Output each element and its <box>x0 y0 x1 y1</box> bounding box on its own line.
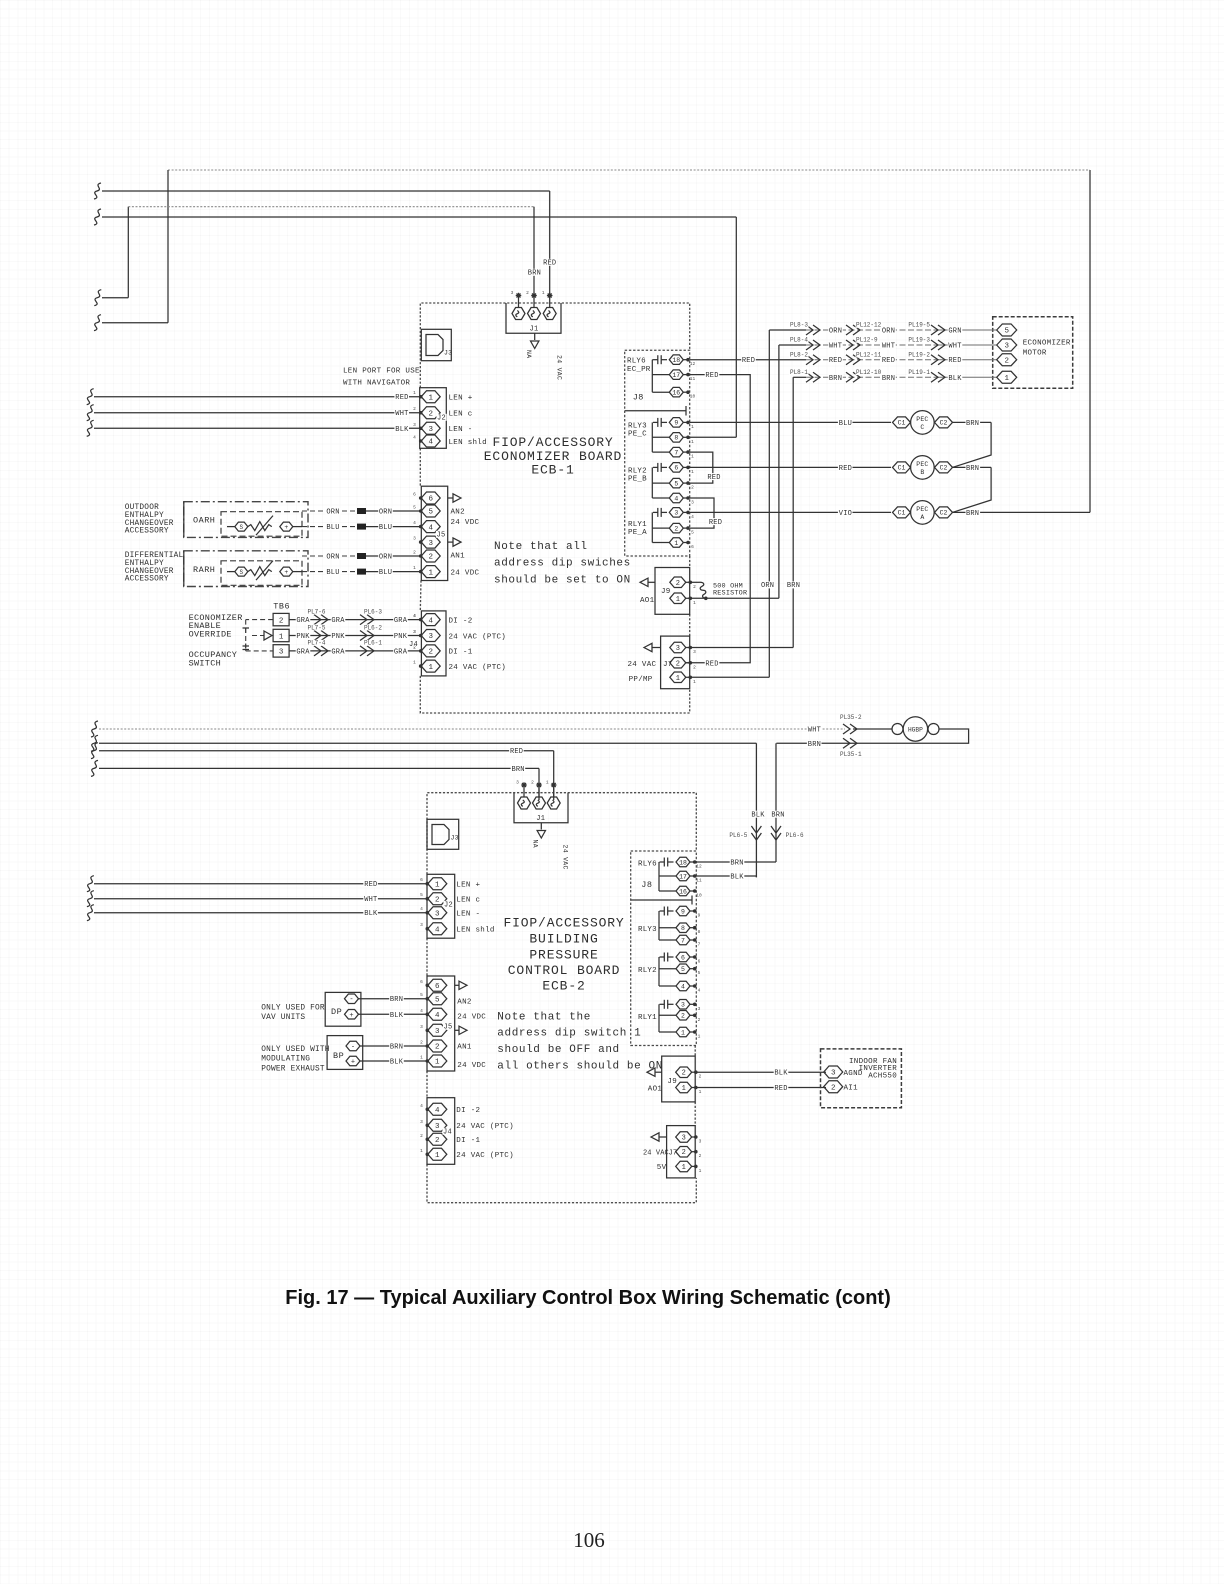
svg-text:LEN +: LEN + <box>449 395 473 403</box>
pin 3 J7 ECB-2 <box>676 1132 692 1142</box>
svg-text:1: 1 <box>676 675 680 683</box>
connector J1 (ECB-1) <box>506 303 561 333</box>
pin 3 J1 ECB-1 <box>512 308 525 320</box>
svg-text:BRN: BRN <box>808 741 821 749</box>
wire VIO J8-3 to PEC A <box>690 511 891 513</box>
svg-text:RED: RED <box>839 465 852 473</box>
svg-text:HGBP: HGBP <box>908 726 923 733</box>
svg-text:18: 18 <box>672 357 680 364</box>
pin 18 J8 ECB-2 <box>676 857 690 867</box>
pin - BP <box>346 1041 360 1051</box>
svg-text:ECONOMIZER: ECONOMIZER <box>1023 340 1071 348</box>
svg-text:2: 2 <box>682 1070 686 1078</box>
pin 8 J8 ECB-1 <box>669 433 683 443</box>
svg-text:4: 4 <box>428 524 433 532</box>
svg-text:+: + <box>351 1059 355 1067</box>
svg-text:SWITCH: SWITCH <box>189 658 221 668</box>
svg-text:5: 5 <box>674 480 678 487</box>
svg-text:2: 2 <box>831 1084 836 1092</box>
pin 5 J8 ECB-2 <box>676 964 690 974</box>
svg-text:3: 3 <box>693 649 696 655</box>
svg-text:J3: J3 <box>451 835 459 842</box>
svg-text:4: 4 <box>413 520 416 526</box>
svg-text:CONTROL BOARD: CONTROL BOARD <box>508 963 620 978</box>
pin 1 J5 ECB-1 <box>421 566 440 578</box>
svg-text:AI1: AI1 <box>844 1085 859 1093</box>
wire PL8-3 drop to ORN riser <box>769 329 806 331</box>
svg-text:5: 5 <box>1004 328 1009 336</box>
pin + BP <box>346 1056 360 1066</box>
svg-text:6: 6 <box>691 544 694 550</box>
svg-text:3: 3 <box>831 1070 836 1078</box>
svg-text:2: 2 <box>676 580 680 588</box>
svg-text:FIOP/ACCESSORY: FIOP/ACCESSORY <box>492 435 613 450</box>
svg-text:should be OFF and: should be OFF and <box>497 1044 619 1056</box>
wire RED J8-17 to J7-2 ECB-1 <box>685 375 750 663</box>
plug C1 PEC B <box>893 462 911 473</box>
pin 1 J2 ECB-1 <box>421 391 440 403</box>
pin 9 J8 ECB-2 <box>676 906 690 916</box>
pin 2 J1 ECB-1 <box>528 308 541 320</box>
pin 2 J4 ECB-2 <box>428 1133 447 1145</box>
svg-text:3: 3 <box>428 426 433 434</box>
wire LEN BLK to J2-3 ECB-2 <box>87 905 94 921</box>
svg-text:2: 2 <box>420 1133 423 1139</box>
resistor 500 ohm on J9 <box>691 581 700 583</box>
wire field feed B (RED to ECB-1 J1 pin 1) <box>94 183 101 199</box>
svg-text:GRA: GRA <box>296 648 310 656</box>
arrow 24VAC J7 ECB-2 <box>659 1136 667 1138</box>
svg-text:FIOP/ACCESSORY: FIOP/ACCESSORY <box>503 916 624 931</box>
pin 3 economizer motor <box>997 339 1017 351</box>
wire J7-3 to BRN riser <box>691 647 793 649</box>
svg-text:3: 3 <box>676 645 680 653</box>
svg-text:S: S <box>239 569 243 576</box>
svg-text:PEC: PEC <box>916 461 928 468</box>
svg-text:RLY6: RLY6 <box>638 861 657 869</box>
svg-text:1: 1 <box>435 1152 440 1160</box>
svg-text:AO1: AO1 <box>648 1086 663 1094</box>
svg-text:BLK: BLK <box>364 910 378 918</box>
svg-text:2: 2 <box>279 617 284 625</box>
svg-text:BP: BP <box>333 1051 344 1061</box>
wire BLK DP to J5-4 ECB-2 <box>359 1013 428 1015</box>
board ECB-1 outline (FIOP/ACCESSORY ECONOMIZER BOARD) <box>420 303 689 388</box>
plug C1 PEC A <box>893 507 911 518</box>
relay block J8 (ECB-1) <box>625 350 690 556</box>
pin 2 J8 ECB-1 <box>669 523 683 533</box>
wire RED J8-18 to PL8-2 row <box>690 359 806 361</box>
svg-text:5: 5 <box>428 509 433 517</box>
relay RLY2 coil contact <box>653 466 658 468</box>
pin 17 J8 ECB-2 <box>676 871 690 881</box>
svg-text:6: 6 <box>698 959 701 965</box>
svg-text:BLK: BLK <box>390 1059 404 1067</box>
svg-text:RED: RED <box>510 748 523 756</box>
svg-text:2: 2 <box>681 1013 685 1020</box>
jumper J8-4 to J8-2 (RED) <box>690 498 714 528</box>
svg-text:24 VAC (PTC): 24 VAC (PTC) <box>449 664 507 672</box>
svg-text:6: 6 <box>681 954 685 961</box>
pin 1 J8 ECB-1 <box>669 538 683 547</box>
wire J9-1 to WHT riser <box>691 597 779 599</box>
svg-text:PL19-1: PL19-1 <box>908 369 930 376</box>
svg-text:C2: C2 <box>940 420 948 427</box>
arrow J5-3 ECB-1 <box>448 541 453 543</box>
svg-text:ORN: ORN <box>379 554 392 562</box>
connector J2 (ECB-2) <box>427 874 455 938</box>
relay RLY1 coil contact ECB-2 <box>660 1003 665 1005</box>
wire TB6-2 GRA to J4 ECB-1 <box>289 619 421 621</box>
svg-text:8: 8 <box>698 929 701 935</box>
svg-text:LEN -: LEN - <box>449 426 473 434</box>
svg-text:J7: J7 <box>669 1149 678 1157</box>
terminal TB6-2 <box>273 613 289 625</box>
pin 1 J8 ECB-2 <box>676 1027 690 1037</box>
svg-text:RLY3: RLY3 <box>628 423 647 431</box>
relay RLY3 coil contact <box>653 421 658 423</box>
wire BRN PEC C to PEC B <box>953 421 992 423</box>
svg-text:1: 1 <box>420 1055 423 1061</box>
svg-text:1: 1 <box>691 424 694 430</box>
pin 5 J5 ECB-1 <box>421 505 440 517</box>
arrow 24VAC J1 ECB-2 <box>540 823 542 830</box>
svg-text:C1: C1 <box>898 465 906 472</box>
svg-text:AGND: AGND <box>844 1070 863 1078</box>
svg-text:PL19-3: PL19-3 <box>908 337 930 344</box>
riser ORN PL8-3 to J7-1 ECB-1 <box>768 330 770 677</box>
arrow J5-3 ECB-2 <box>455 1029 459 1031</box>
wire RED to ECB-2 J1 pin 1 <box>91 743 98 759</box>
svg-text:DI -2: DI -2 <box>456 1107 480 1115</box>
svg-text:1: 1 <box>413 565 416 571</box>
pin 4 J4 ECB-2 <box>428 1103 447 1115</box>
svg-text:RED: RED <box>948 357 961 365</box>
svg-text:3: 3 <box>428 633 433 641</box>
connector J5 (ECB-1) <box>421 486 447 580</box>
svg-text:J1: J1 <box>529 326 538 334</box>
svg-text:BLU: BLU <box>326 569 339 577</box>
svg-text:16: 16 <box>679 888 687 895</box>
wire TB6-1 PNK to J4 ECB-1 <box>289 635 421 637</box>
wire field 24VAC feed A (top, to PEC A BRN) <box>168 169 1090 171</box>
svg-text:AN2: AN2 <box>451 508 465 516</box>
svg-text:4: 4 <box>420 906 423 912</box>
pin 3 J1 ECB-2 <box>518 797 531 809</box>
svg-text:BRN: BRN <box>882 375 895 383</box>
svg-text:3: 3 <box>413 422 416 428</box>
svg-text:DP: DP <box>331 1007 342 1017</box>
wire BLK BP to J5-1 ECB-2 <box>360 1060 427 1062</box>
svg-text:BLK: BLK <box>774 1070 788 1078</box>
wire ORN RARH to board <box>302 555 355 557</box>
pin 2 J2 ECB-1 <box>421 407 440 419</box>
svg-text:PL6-1: PL6-1 <box>364 640 382 647</box>
svg-text:PL12-10: PL12-10 <box>856 369 882 376</box>
svg-text:WHT: WHT <box>364 896 377 904</box>
svg-text:ORN: ORN <box>326 509 339 517</box>
svg-text:PEC: PEC <box>916 416 928 423</box>
svg-text:1: 1 <box>546 780 549 786</box>
arrow J5-6 ECB-2 <box>455 984 459 986</box>
svg-text:4: 4 <box>435 1012 440 1020</box>
svg-text:1: 1 <box>698 1034 701 1040</box>
connector J4 (ECB-1) <box>421 611 446 676</box>
svg-text:J2: J2 <box>437 415 446 423</box>
wire BLU J8-9 to PEC C <box>690 421 891 423</box>
svg-text:LEN PORT FOR USE: LEN PORT FOR USE <box>343 368 420 376</box>
svg-text:BRN: BRN <box>771 811 784 819</box>
splice ORN RARH <box>357 553 366 559</box>
svg-text:RLY6: RLY6 <box>627 358 646 366</box>
plug C2 PEC C <box>935 417 953 428</box>
connector J4 (ECB-2) <box>427 1098 455 1165</box>
svg-text:10: 10 <box>690 394 696 400</box>
wire J7-1 to ORN riser <box>691 676 769 678</box>
pin 4 J4 ECB-1 <box>421 614 440 626</box>
pin 1 J5 ECB-2 <box>428 1055 447 1067</box>
svg-text:BRN: BRN <box>511 766 524 774</box>
PEC A device <box>911 501 935 525</box>
connector J9 (ECB-1) <box>655 568 690 615</box>
PEC C device <box>911 411 935 435</box>
svg-text:RED: RED <box>829 357 842 365</box>
arrow AO1 J9 ECB-1 <box>648 581 655 583</box>
svg-text:ORN: ORN <box>829 328 842 336</box>
svg-text:EC_PR: EC_PR <box>627 366 651 374</box>
svg-text:ACCESSORY: ACCESSORY <box>125 576 169 584</box>
svg-text:4: 4 <box>420 1103 423 1109</box>
wire BRN PEC B to PEC A <box>953 466 992 468</box>
svg-text:1: 1 <box>676 596 680 604</box>
arrow 24VAC J7 ECB-1 <box>652 647 661 649</box>
plug C1 PEC C <box>893 417 911 428</box>
svg-text:OARH: OARH <box>193 516 215 526</box>
svg-text:LEN c: LEN c <box>449 411 473 419</box>
svg-text:PL7-4: PL7-4 <box>307 640 325 647</box>
svg-text:LEN +: LEN + <box>456 882 480 890</box>
svg-text:BRN: BRN <box>966 510 979 518</box>
svg-text:5: 5 <box>420 892 423 898</box>
connector J7 (ECB-2) <box>667 1126 696 1178</box>
svg-text:C1: C1 <box>898 420 906 427</box>
svg-text:J8: J8 <box>641 880 652 890</box>
svg-text:Note that all: Note that all <box>494 541 588 553</box>
svg-text:GRA: GRA <box>394 617 408 625</box>
wire row PL8-2/PL12-11/PL19-2 to motor pin 2 <box>806 359 935 361</box>
svg-text:24 VAC: 24 VAC <box>643 1149 669 1157</box>
pin 3 J4 ECB-2 <box>428 1119 447 1131</box>
svg-text:1: 1 <box>413 660 416 666</box>
pin 2 J7 ECB-2 <box>676 1147 692 1158</box>
svg-text:4: 4 <box>420 1008 423 1014</box>
pin 16 J8 ECB-2 <box>676 886 690 896</box>
svg-text:PP/MP: PP/MP <box>629 676 653 684</box>
wire BRN PEC A to feed A <box>953 511 1091 513</box>
svg-text:2: 2 <box>691 485 694 491</box>
wire LEN WHT to J2-2 ECB-1 <box>87 405 94 421</box>
svg-text:1: 1 <box>682 1085 686 1093</box>
pin 3 J5 ECB-2 <box>428 1024 447 1036</box>
svg-text:PL8-3: PL8-3 <box>790 322 808 329</box>
wire LEN BLK to J2-3 ECB-1 <box>87 420 94 436</box>
svg-text:3: 3 <box>674 510 678 517</box>
pin 1 J1 ECB-1 <box>543 308 556 320</box>
svg-text:24 VDC: 24 VDC <box>451 519 480 527</box>
svg-text:ECB-1: ECB-1 <box>531 463 574 478</box>
svg-text:PL19-2: PL19-2 <box>908 351 930 358</box>
svg-text:MOTOR: MOTOR <box>1023 350 1047 358</box>
wire BLK to PL6-5 / ECB-2 J8-17 <box>91 735 98 751</box>
svg-text:BLU: BLU <box>839 420 852 428</box>
svg-text:3: 3 <box>691 500 694 506</box>
svg-text:4: 4 <box>435 926 440 934</box>
svg-text:DI -1: DI -1 <box>449 649 473 657</box>
svg-text:-: - <box>351 1044 355 1052</box>
wire LEN WHT to J2-2 ECB-2 <box>87 891 94 907</box>
svg-text:1: 1 <box>681 1029 685 1036</box>
svg-text:RED: RED <box>543 260 556 268</box>
wire BLU RARH to board <box>302 571 355 573</box>
svg-text:24 VAC: 24 VAC <box>556 355 563 380</box>
svg-text:1: 1 <box>542 290 545 296</box>
svg-text:24 VAC (PTC): 24 VAC (PTC) <box>456 1123 514 1131</box>
svg-text:RED: RED <box>709 519 722 527</box>
svg-text:5: 5 <box>698 970 701 976</box>
pin 4 J8 ECB-2 <box>676 981 690 991</box>
svg-text:1: 1 <box>1004 375 1009 383</box>
svg-text:LEN c: LEN c <box>456 897 480 905</box>
connector J1 (ECB-2) <box>514 793 568 823</box>
svg-text:J5: J5 <box>436 532 445 540</box>
svg-text:ACCESSORY: ACCESSORY <box>125 528 169 536</box>
svg-text:C1: C1 <box>898 510 906 517</box>
economizer motor box <box>993 317 1073 389</box>
svg-text:1: 1 <box>435 1059 440 1067</box>
svg-text:1: 1 <box>691 469 694 475</box>
svg-text:1: 1 <box>693 679 696 685</box>
pin 18 J8 ECB-1 <box>669 355 683 365</box>
svg-text:ACH550: ACH550 <box>868 1073 897 1081</box>
pin 1 J4 ECB-1 <box>421 660 440 672</box>
svg-text:GRA: GRA <box>331 648 345 656</box>
svg-text:4: 4 <box>435 1107 440 1115</box>
pin 2 J8 ECB-2 <box>676 1011 690 1021</box>
svg-text:3: 3 <box>698 1006 701 1012</box>
svg-text:1: 1 <box>428 664 433 672</box>
svg-text:PNK: PNK <box>331 633 345 641</box>
switch blade to TB6-1 <box>252 635 264 637</box>
pin 6 J5 ECB-1 <box>421 492 440 504</box>
svg-text:BRN: BRN <box>787 582 800 590</box>
svg-text:NA: NA <box>525 350 532 358</box>
svg-text:J4: J4 <box>443 1129 452 1137</box>
svg-text:4: 4 <box>428 617 433 625</box>
svg-text:2: 2 <box>428 649 433 657</box>
svg-text:PL12-9: PL12-9 <box>856 337 878 344</box>
pin 2 J9 ECB-1 <box>670 577 686 588</box>
svg-text:BRN: BRN <box>390 996 403 1004</box>
svg-text:1: 1 <box>413 390 416 396</box>
svg-text:C: C <box>920 424 924 431</box>
pin 1 J7 ECB-1 <box>670 672 686 683</box>
svg-text:WITH NAVIGATOR: WITH NAVIGATOR <box>343 380 410 388</box>
svg-text:PE_B: PE_B <box>628 475 647 483</box>
svg-text:11: 11 <box>690 376 696 382</box>
svg-text:should be set to ON: should be set to ON <box>494 575 631 587</box>
pin 5 economizer motor <box>997 324 1017 336</box>
svg-text:12: 12 <box>696 864 702 870</box>
svg-text:3: 3 <box>435 910 440 918</box>
wire field feed C (BRN to ECB-1 J1 pin 2) <box>94 290 101 306</box>
pin 4 J8 ECB-1 <box>669 493 683 503</box>
svg-text:3: 3 <box>681 1002 685 1009</box>
svg-text:2: 2 <box>435 896 440 904</box>
svg-text:-: - <box>349 996 353 1004</box>
wire PL8-4 drop to WHT riser <box>779 344 806 346</box>
svg-text:6: 6 <box>420 877 423 883</box>
svg-text:PL8-1: PL8-1 <box>790 369 808 376</box>
svg-text:12: 12 <box>690 361 696 367</box>
pin 1 J1 ECB-2 <box>547 797 560 809</box>
splice BLU OARH <box>357 524 366 530</box>
svg-text:2: 2 <box>693 664 696 670</box>
svg-text:24 VDC: 24 VDC <box>451 570 480 578</box>
svg-text:3: 3 <box>413 536 416 542</box>
wire LEN RED to J2-1 ECB-2 <box>87 876 94 892</box>
svg-text:PL8-2: PL8-2 <box>790 351 808 358</box>
pin 5 J5 ECB-2 <box>428 993 447 1005</box>
connector J3 LEN port (ECB-2) <box>427 819 459 849</box>
svg-text:5: 5 <box>681 966 685 973</box>
pin 2 J4 ECB-1 <box>421 645 440 657</box>
svg-text:PRESSURE: PRESSURE <box>529 948 598 963</box>
pin 3 J2 ECB-2 <box>428 907 447 919</box>
svg-text:1: 1 <box>428 394 433 402</box>
svg-text:VAV UNITS: VAV UNITS <box>261 1014 305 1022</box>
pin 2 J7 ECB-1 <box>670 658 686 669</box>
svg-text:RLY1: RLY1 <box>638 1014 657 1022</box>
svg-text:ORN: ORN <box>882 328 895 336</box>
svg-text:RLY1: RLY1 <box>628 521 647 529</box>
pin 2 J5 ECB-1 <box>421 550 440 562</box>
svg-text:BLK: BLK <box>948 375 962 383</box>
svg-text:2: 2 <box>413 406 416 412</box>
svg-text:PL6-5: PL6-5 <box>729 832 747 839</box>
svg-text:7: 7 <box>681 937 685 944</box>
svg-text:BRN: BRN <box>829 375 842 383</box>
riser BRN PL6-6 to ECB-2 J8-18 <box>775 743 777 862</box>
pin 2 J2 ECB-2 <box>428 893 447 905</box>
indoor fan inverter ACH550 box <box>821 1049 902 1108</box>
svg-text:3: 3 <box>435 1028 440 1036</box>
svg-text:OUTDOOR: OUTDOOR <box>125 504 159 512</box>
svg-text:1: 1 <box>691 439 694 445</box>
board ECB-2 outline (BUILDING PRESSURE CONTROL BOARD) <box>427 793 696 875</box>
wire HGBP return BRN to PL35-1 <box>776 729 968 743</box>
svg-text:6: 6 <box>413 492 416 498</box>
splice ORN OARH <box>357 508 366 514</box>
pin 2 J1 ECB-2 <box>533 797 546 809</box>
svg-text:LEN shld: LEN shld <box>449 439 487 447</box>
svg-text:2: 2 <box>435 1044 440 1052</box>
pin 1 J9 ECB-1 <box>670 593 686 604</box>
svg-text:NA: NA <box>532 840 539 848</box>
relay RLY1 coil contact <box>653 511 658 513</box>
pin 3 AGND inverter <box>824 1066 843 1078</box>
svg-text:ORN: ORN <box>379 509 392 517</box>
svg-text:J8: J8 <box>633 393 644 403</box>
